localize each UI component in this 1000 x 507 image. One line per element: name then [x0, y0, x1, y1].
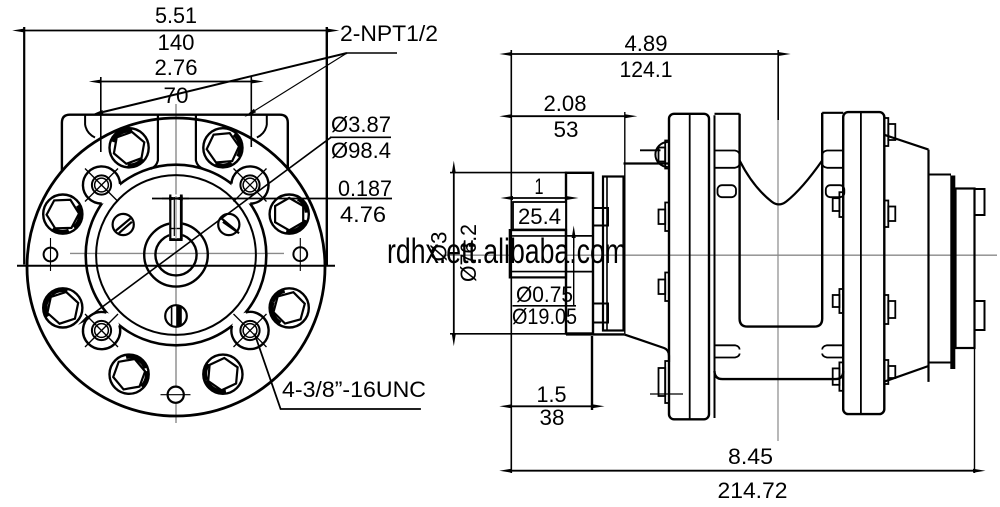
body bottom line — [715, 371, 844, 379]
svg-text:1.5: 1.5 — [537, 382, 567, 407]
port block inner edge right — [257, 115, 267, 138]
pilot bottom tab — [593, 304, 608, 323]
slotted screw 3 — [165, 305, 187, 327]
mounting lobe 4 — [231, 312, 268, 349]
hex bolt 2 — [203, 128, 242, 167]
dim 2.08/53 — [624, 112, 626, 334]
hex bolt 3 — [270, 195, 309, 234]
svg-text:2.76: 2.76 — [155, 55, 198, 80]
pilot top tab — [593, 208, 608, 226]
rear plate left bolt 2 — [833, 289, 844, 313]
dim 8.45/214.72 — [974, 348, 976, 473]
mounting lobe 1 — [83, 166, 120, 203]
rotor dome curve — [740, 161, 823, 205]
front mounting flange plate — [669, 114, 709, 420]
mounting lobe 3 — [83, 312, 120, 349]
svg-text:4-3/8”-16UNC: 4-3/8”-16UNC — [282, 377, 426, 402]
hex bolt 1 — [110, 128, 149, 167]
neck top line — [624, 162, 670, 164]
seam (thick) — [950, 176, 955, 370]
svg-text:53: 53 — [554, 117, 579, 142]
rear plate right bolt 1 — [884, 118, 895, 146]
svg-text:8.45: 8.45 — [728, 444, 773, 469]
label 2-NPT1/2 underline — [347, 52, 397, 54]
flange width line — [17, 265, 335, 267]
label 4-3/8-16UNC leader — [255, 334, 421, 410]
body top left line — [715, 113, 740, 115]
gerotor ring top — [929, 174, 952, 176]
small hole bottom — [161, 387, 191, 403]
end cap tab bottom — [975, 301, 985, 330]
mounting hole 4-3/8-16UNC #4 — [234, 314, 267, 347]
shaft boss circle — [144, 223, 208, 287]
flange outer circle — [27, 118, 325, 416]
neck top step — [640, 149, 661, 151]
dim 1/25.4 — [513, 197, 567, 199]
dim 5.51/140 extension lines — [23, 27, 25, 265]
right view vertical centerline through mounting flange — [777, 56, 779, 441]
svg-text:124.1: 124.1 — [620, 57, 673, 82]
shaft side view — [510, 230, 593, 277]
dim dia0.75/19.05 leader — [573, 236, 575, 306]
left view horizontal centerline — [70, 252, 284, 254]
leader to left port — [103, 53, 347, 112]
hex bolt 4 — [270, 288, 309, 327]
front plate bolt 2 — [659, 203, 670, 232]
rear plate right bolt 3 — [884, 295, 895, 324]
body cavity — [740, 113, 823, 327]
hex bolt 5 — [203, 355, 242, 394]
hex bolt 8 — [43, 195, 82, 234]
port block outline — [62, 115, 288, 171]
port block inner edge left — [85, 115, 95, 138]
rear plate left bolt 1 — [833, 192, 844, 217]
hex bolt 7 — [43, 288, 82, 327]
small hole left — [44, 238, 58, 271]
neck bottom line — [566, 333, 624, 335]
shaft keyway slot — [169, 195, 182, 241]
gerotor ring bottom — [929, 362, 952, 364]
svg-text:4.76: 4.76 — [340, 202, 386, 227]
leader to right port — [255, 53, 347, 111]
mounting lobe 2 — [231, 166, 268, 203]
svg-text:4.89: 4.89 — [625, 31, 668, 56]
port boss neck left edge — [151, 115, 158, 169]
svg-text:214.72: 214.72 — [718, 478, 788, 503]
rear cover bottom slant — [884, 366, 928, 382]
front cover plate — [603, 177, 624, 331]
rear plate right bolt 2 — [884, 201, 895, 228]
svg-text:Ø19.05: Ø19.05 — [512, 304, 577, 329]
motor body circle — [86, 165, 267, 346]
rear cover right face — [927, 150, 929, 382]
bottom bolt tick — [650, 393, 683, 395]
right column bolt lines — [822, 151, 843, 156]
mounting hole 4-3/8-16UNC #1 — [85, 169, 118, 202]
rear plate left bolt 3 — [833, 362, 844, 390]
svg-text:25.4: 25.4 — [518, 204, 561, 229]
shaft bore circle — [155, 234, 196, 275]
rear mounting flange plate — [843, 112, 884, 414]
dim 1.5/38 — [591, 336, 593, 410]
front plate bolt 3 — [659, 273, 670, 302]
dim 0.187/4.76 leader line — [152, 198, 392, 200]
left column bolt lines — [715, 151, 740, 156]
dia 3.87 underline — [330, 136, 391, 138]
svg-text:1: 1 — [535, 174, 544, 199]
rear plate right bolt 4 — [884, 360, 895, 384]
mounting hole 4-3/8-16UNC #3 — [85, 314, 118, 347]
slotted screw 1 — [113, 214, 134, 235]
dim 5.51/140 dimension line — [24, 30, 327, 32]
port boss neck right edge — [196, 115, 203, 169]
slotted screw 2 — [218, 214, 239, 235]
hex bolt 6 — [110, 355, 149, 394]
svg-text:140: 140 — [158, 30, 195, 55]
svg-text:38: 38 — [540, 405, 565, 430]
left view vertical centerline — [175, 104, 177, 423]
svg-text:5.51: 5.51 — [155, 3, 197, 28]
dim 2.76/70 dimension line — [101, 81, 252, 83]
neck bottom chamfer — [624, 334, 669, 362]
leader diagonal to bolt circle — [88, 137, 331, 317]
small hole right — [293, 238, 307, 271]
front plate top bolt bump — [655, 142, 668, 167]
end cap tab top — [975, 189, 985, 215]
pilot circle — [96, 175, 256, 335]
svg-text:Ø98.4: Ø98.4 — [331, 138, 391, 163]
pilot cylinder — [566, 173, 593, 334]
dim 4.89/124.1 — [777, 50, 779, 120]
right view horizontal centerline — [443, 254, 997, 256]
svg-text:2.08: 2.08 — [544, 91, 587, 116]
svg-text:2-NPT1/2: 2-NPT1/2 — [340, 21, 438, 46]
svg-text:Ø3.87: Ø3.87 — [331, 112, 391, 137]
body front face line — [714, 115, 716, 418]
dim 2.76/70 extension lines — [100, 77, 102, 152]
svg-text:0.187: 0.187 — [338, 176, 392, 201]
front plate bolt 4 — [659, 361, 670, 403]
svg-text:rdhx.ett.alibaba.com: rdhx.ett.alibaba.com — [387, 232, 627, 271]
body top right line — [822, 112, 843, 114]
mounting hole 4-3/8-16UNC #2 — [234, 169, 267, 202]
master extension line at shaft end — [510, 50, 512, 473]
rear cover top slant — [884, 135, 928, 150]
end cap — [956, 189, 975, 349]
front plate bolt 1 — [659, 141, 670, 169]
dim dia3/76.2 — [453, 173, 455, 334]
